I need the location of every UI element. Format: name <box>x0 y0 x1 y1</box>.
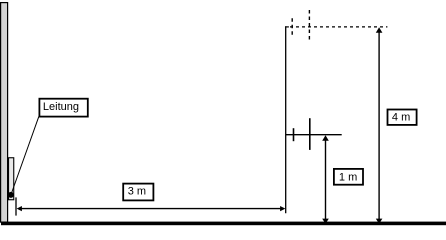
svg-text:1 m: 1 m <box>339 171 357 183</box>
svg-text:3 m: 3 m <box>128 185 146 197</box>
svg-text:Leitung: Leitung <box>43 101 79 113</box>
svg-text:4 m: 4 m <box>392 112 410 124</box>
